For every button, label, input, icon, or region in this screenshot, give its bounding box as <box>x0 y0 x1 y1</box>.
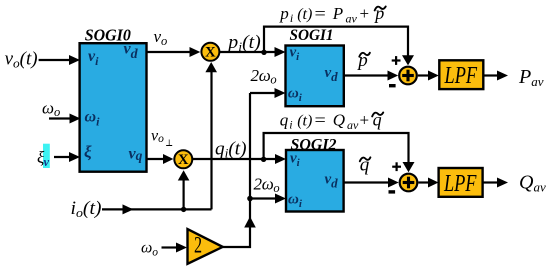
svg-text:SOGI1: SOGI1 <box>290 27 334 44</box>
svg-text:vo(t): vo(t) <box>5 49 38 70</box>
block SOGI1 <box>286 27 344 106</box>
svg-text:X: X <box>205 45 216 61</box>
svg-text:+: + <box>360 4 370 23</box>
svg-text:pi(t): pi(t) <box>226 33 261 54</box>
svg-text:=: = <box>315 111 326 130</box>
svg-text:LPF: LPF <box>443 171 477 197</box>
svg-text:p: p <box>279 4 289 23</box>
block SOGI0 <box>80 25 147 171</box>
node equation pi(t)=Pav+p~ <box>279 3 385 26</box>
wire X1 to SOGI1 vi <box>220 47 286 57</box>
svg-text:(t): (t) <box>297 113 312 130</box>
svg-text:q: q <box>280 111 289 130</box>
svg-text:i: i <box>290 11 293 25</box>
svg-text:X: X <box>178 152 189 168</box>
node q~ label <box>360 155 371 176</box>
svg-text:Q: Q <box>333 111 345 130</box>
svg-text:SOGI2: SOGI2 <box>291 137 337 154</box>
wire p feedback branch to summer S1 <box>261 27 414 66</box>
wire summer S1 to LPF1 <box>418 71 439 81</box>
multiplier X2 <box>174 150 192 168</box>
svg-text:i: i <box>289 118 292 132</box>
wire SOGI0 vd to multiplier X1 <box>147 47 201 57</box>
svg-text:av: av <box>346 12 358 26</box>
node equation qi(t)=Qav+q~ <box>280 110 383 133</box>
svg-text:av: av <box>347 118 359 132</box>
svg-text:2: 2 <box>194 233 202 258</box>
wire vo(t) to SOGI0 vi <box>39 55 80 65</box>
wire omega_o to gain <box>162 243 188 253</box>
svg-text:v: v <box>44 155 50 169</box>
svg-text:⟂: ⟂ <box>166 138 173 148</box>
wire io vertical up to X1 <box>205 62 217 209</box>
wire q feedback branch to summer S2 <box>261 133 415 172</box>
wire X2 to SOGI2 vi <box>193 154 286 164</box>
wire 2omega_o to SOGI2 omega_i <box>247 194 286 204</box>
svg-text:qi(t): qi(t) <box>215 139 247 160</box>
wire xi_v to SOGI0 xi <box>54 152 80 162</box>
multiplier X1 <box>201 43 219 61</box>
svg-text:io(t): io(t) <box>71 199 102 220</box>
wire SOGI1 vd to summer S1 <box>344 71 398 81</box>
node vo_perp output label <box>151 127 173 148</box>
block SOGI2 <box>286 137 344 212</box>
wire io(t) main <box>102 204 212 214</box>
svg-text:(t): (t) <box>297 6 312 23</box>
wire SOGI0 vq to multiplier X2 <box>147 154 174 164</box>
wire omega_o to SOGI0 omega_i <box>49 114 81 124</box>
block LPF2 <box>439 168 483 197</box>
node xi_v input label (highlighted) <box>37 144 50 169</box>
wire gain output to 2omega_o bus <box>223 93 256 247</box>
svg-text:ξ: ξ <box>84 143 92 162</box>
block LPF1 <box>439 60 483 89</box>
summer S2 <box>389 162 418 193</box>
summer S1 <box>389 56 417 87</box>
wire io branch up to X2 <box>178 170 190 212</box>
wire LPF2 to Qav <box>483 178 508 188</box>
wire SOGI2 vd to summer S2 <box>344 178 399 188</box>
node p~ label <box>356 50 370 71</box>
svg-text:vq: vq <box>129 146 143 164</box>
svg-text:LPF: LPF <box>444 63 478 89</box>
wire 2omega_o to SOGI1 omega_i <box>250 88 286 98</box>
svg-text:P: P <box>332 4 343 23</box>
wire summer S2 to LPF2 <box>418 178 438 188</box>
svg-text:+: + <box>360 111 370 130</box>
svg-text:=: = <box>315 4 326 23</box>
gain triangle x2 <box>188 229 223 264</box>
wire LPF1 to Pav <box>483 71 508 81</box>
